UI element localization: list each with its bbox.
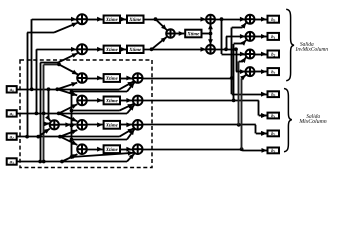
node row A branch to xor D: [154, 17, 158, 21]
wire xor H1 to output box: [255, 19, 267, 21]
output box MixColumn b0: [268, 91, 280, 97]
wire a3 input line: [17, 161, 127, 163]
xor gate D: [166, 29, 175, 38]
wire row3 xtime to right xor: [120, 124, 132, 126]
wire row3 xor to xtime: [87, 124, 103, 126]
xtime box A2: [127, 16, 144, 23]
xtime box B2: [127, 46, 144, 53]
xor gate row3 right: [133, 120, 143, 130]
xtime box row2: [104, 97, 120, 105]
wire xor H3 to output box: [255, 54, 267, 56]
arrowhead output box2: [261, 113, 267, 118]
node t bus row4 tap: [70, 155, 74, 159]
wire bus tap to xor T: [44, 123, 50, 125]
xor gate H2: [246, 32, 255, 41]
wire row1 xor to xtime: [87, 78, 103, 80]
wire b3 riser up: [241, 78, 243, 149]
wire a0 drop to xor T upper input: [48, 89, 50, 118]
dashed box MixColumns block: [20, 60, 152, 168]
label Salida MixColumn: [306, 114, 320, 118]
wire b1 diagonal into xor H2: [243, 40, 247, 44]
wire row B to xor D: [152, 37, 167, 49]
wire a2 diagonal to right xor row3: [120, 128, 134, 136]
wire branch to xor B lower input: [58, 53, 78, 62]
brace InvMixColumn outputs: [286, 9, 294, 80]
wire bus corner to node: [44, 64, 59, 66]
wire a1 to xor row3 upper: [59, 113, 78, 121]
wire b0 down to output box1: [231, 78, 233, 94]
wire G bus to xor H4: [236, 71, 246, 73]
xor gate B: [77, 44, 87, 54]
wire riser a2 to xor A lower input: [27, 33, 29, 137]
wire b2 riser up: [238, 61, 240, 124]
wire xor H2 to output box: [255, 36, 267, 38]
xtime box E: [185, 30, 201, 38]
wire junction up to xor F: [210, 24, 212, 34]
node E junction: [209, 32, 213, 36]
wire row1 xtime to right xor: [120, 78, 132, 80]
node G bus junction 2: [234, 47, 238, 51]
xor gate F: [206, 15, 215, 24]
wire a0 to xor row1: [57, 83, 77, 90]
arrowhead output box1: [261, 92, 267, 97]
xtime box row1: [104, 74, 120, 82]
wire b2 diagonal into xor H3: [243, 57, 246, 61]
wire xor D to xtime E: [175, 33, 185, 35]
wire junction down to xor G: [210, 34, 212, 45]
node t bus row1 tap: [70, 90, 74, 94]
node a1 branch: [57, 112, 61, 116]
wire a2 to xor T: [36, 135, 40, 139]
wire xor A to xtime A1: [87, 19, 103, 21]
wire a0 to xor row2: [57, 89, 77, 95]
output box MixColumn b2: [268, 131, 280, 137]
wire T to xor row3: [59, 124, 71, 126]
wire a1 to xor row2: [59, 104, 78, 113]
wire riser a1 to xor B: [36, 49, 38, 113]
node a3 branch: [60, 160, 64, 164]
wire b1 riser up: [233, 44, 235, 101]
xor gate row2 right: [133, 96, 143, 106]
wire xtime B1 to xtime B2: [120, 49, 126, 51]
node bus a1 junction: [42, 112, 46, 116]
xor gate row4 right: [133, 144, 143, 154]
wire row4 xtime to right xor: [120, 149, 132, 151]
node t bus row2 tap: [70, 109, 74, 113]
xor gate H1: [246, 15, 255, 24]
wire node to xor row1 upper input: [59, 64, 78, 74]
wire a1 diagonal to right xor row2: [127, 105, 134, 114]
wire row A to xor D: [156, 19, 167, 30]
node G bus junction 1: [224, 47, 228, 51]
xor gate G: [206, 45, 215, 54]
node row B branch to xor D: [150, 47, 154, 51]
xor gate row4 left: [77, 144, 87, 154]
wire t tap to right xor row2: [72, 110, 120, 112]
xor gate row2 left: [77, 96, 87, 106]
wire row4 xor to xtime: [87, 149, 103, 151]
xtime box A1: [104, 16, 120, 23]
wire xor H4 to output box: [255, 71, 267, 73]
wire xor F to xor H1: [215, 19, 246, 21]
wire riser a0 to xor A: [31, 19, 33, 89]
output box InvMixColumn b0: [268, 16, 280, 23]
node F bus junction: [220, 17, 224, 21]
wire xtime B2 to xor G: [144, 49, 207, 51]
wire a3 diagonal to right xor row4: [127, 154, 134, 162]
wire b0 diagonal into xor H1: [242, 23, 246, 28]
wire a0 diagonal to right xor row1: [120, 82, 134, 90]
xor gate row1 left: [77, 73, 87, 83]
wire riser a3 upper branch: [40, 63, 42, 162]
input box a1: [7, 110, 17, 116]
wire row3 output b2: [143, 124, 256, 126]
wire row1 output b0: [143, 78, 232, 80]
wire xtime A1 to xtime A2: [120, 19, 126, 21]
arrowhead output box3: [261, 131, 267, 136]
wire b1 jog down to output box2: [258, 100, 260, 115]
xor gate H3: [246, 50, 255, 59]
wire bus a3 vertical: [43, 64, 45, 161]
wire G bus down: [236, 49, 238, 71]
wire row2 xtime to right xor: [120, 100, 132, 102]
input box a2: [7, 133, 17, 139]
wire G bus to xor H2: [226, 36, 246, 38]
xor gate row1 right: [133, 73, 143, 83]
wire xtime A2 to xor F: [144, 19, 207, 21]
input box a0: [7, 86, 17, 92]
wire a0 input line: [17, 89, 120, 91]
wire t tap to right xor row3: [72, 139, 128, 141]
brace MixColumn outputs: [284, 89, 292, 152]
wire xtime E to junction: [202, 33, 211, 35]
input box a3: [7, 158, 17, 164]
output box MixColumn b3: [268, 148, 280, 154]
output box MixColumn b1: [268, 113, 280, 119]
node t bus T junction: [70, 124, 74, 128]
wire b3 jog down to output box4: [242, 149, 244, 150]
wire row4 output b3: [143, 149, 243, 151]
wire F bus down: [221, 19, 223, 54]
xtime box B1: [104, 46, 120, 53]
xtime box row4: [104, 145, 120, 153]
wire row2 xor to xtime: [87, 100, 103, 102]
wire b3 diagonal into xor H4: [242, 75, 246, 79]
xor gate row3 left: [77, 120, 87, 130]
node a0 branch: [55, 87, 59, 91]
output box InvMixColumn b1: [268, 33, 280, 40]
xor gate H4: [246, 67, 255, 76]
wire a2 input line: [17, 136, 120, 138]
xor gate A: [77, 14, 87, 24]
node t bus row3 tap: [70, 138, 74, 142]
wire a3 to xor row4: [62, 154, 77, 161]
wire b0 riser up: [231, 28, 233, 79]
wire t tap to right xor row4: [72, 153, 134, 157]
wire t bus vertical: [71, 92, 73, 157]
node bus a3 junction: [42, 160, 46, 164]
wire xor G output: [215, 49, 236, 51]
xor gate T: [50, 120, 59, 129]
wire a1 input line: [17, 113, 127, 115]
wire row2 output b1: [143, 100, 259, 102]
node a2 branch: [58, 135, 62, 139]
wire t tap to right xor row1: [72, 91, 128, 93]
wire a2 to xor row3: [60, 130, 77, 137]
wire F bus to xor H3: [222, 54, 246, 56]
wire b2 jog down to output box3: [255, 125, 257, 134]
wire a2 to xor row4: [60, 137, 77, 145]
xtime box row3: [104, 121, 120, 129]
wire G bus up: [226, 36, 228, 49]
node shared fanout: [57, 63, 61, 67]
output box InvMixColumn b2: [268, 51, 280, 58]
wire xor B to xtime B1: [87, 49, 103, 51]
output box InvMixColumn b3: [268, 68, 280, 75]
label Salida InvMixColumn: [300, 42, 314, 46]
